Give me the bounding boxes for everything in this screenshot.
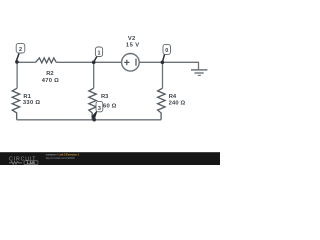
node 1 flag (94, 56, 97, 61)
wire: node0 down to R4 (162, 62, 164, 88)
resistor R4 (158, 88, 166, 120)
svg-text:V2: V2 (128, 36, 135, 42)
svg-text:330 Ω: 330 Ω (23, 100, 40, 106)
svg-text:1: 1 (98, 50, 101, 56)
footer bar (0, 152, 220, 165)
node 0 flag (163, 54, 165, 61)
wire: bottom rail (17, 119, 161, 121)
svg-text:R4: R4 (169, 94, 177, 100)
svg-text:LAB: LAB (27, 161, 35, 165)
svg-text:http://circuitlab.com/c/a95k3l: http://circuitlab.com/c/a95k3l (46, 157, 75, 160)
wire: top rail node2 to R2 (17, 61, 35, 63)
node 1 junction dot (92, 61, 96, 65)
voltage source V2 (122, 54, 140, 72)
svg-text:0: 0 (165, 48, 168, 54)
resistor R1 (12, 88, 20, 120)
ground (191, 69, 207, 71)
wire: ground stem (198, 62, 200, 70)
svg-text:3: 3 (98, 106, 101, 112)
svg-text:R2: R2 (46, 71, 53, 77)
svg-text:470 Ω: 470 Ω (42, 78, 59, 84)
node 2 junction dot (15, 60, 19, 64)
wire: node1 down to R3 (93, 62, 95, 88)
svg-text:240 Ω: 240 Ω (169, 101, 186, 107)
node 3 junction dot (92, 118, 96, 122)
wire: node2 down to R1 (16, 62, 18, 88)
footer logo LAB box (24, 161, 38, 165)
resistor R3 (89, 88, 97, 120)
svg-text:2: 2 (19, 47, 22, 53)
wire: R2 to node1 to V2 (56, 61, 122, 63)
svg-text:R3: R3 (101, 94, 109, 100)
wire: V2 to node0 to ground corner (139, 61, 198, 63)
svg-text:15 V: 15 V (126, 42, 140, 48)
resistor R2 (36, 58, 57, 63)
node 0 junction dot (161, 61, 165, 65)
footer logo zigzag (9, 162, 22, 165)
svg-text:mmarson / Lab 3 Exercise 1: mmarson / Lab 3 Exercise 1 (46, 152, 80, 156)
node 3 flag (92, 111, 97, 119)
node 2 flag (16, 54, 19, 62)
